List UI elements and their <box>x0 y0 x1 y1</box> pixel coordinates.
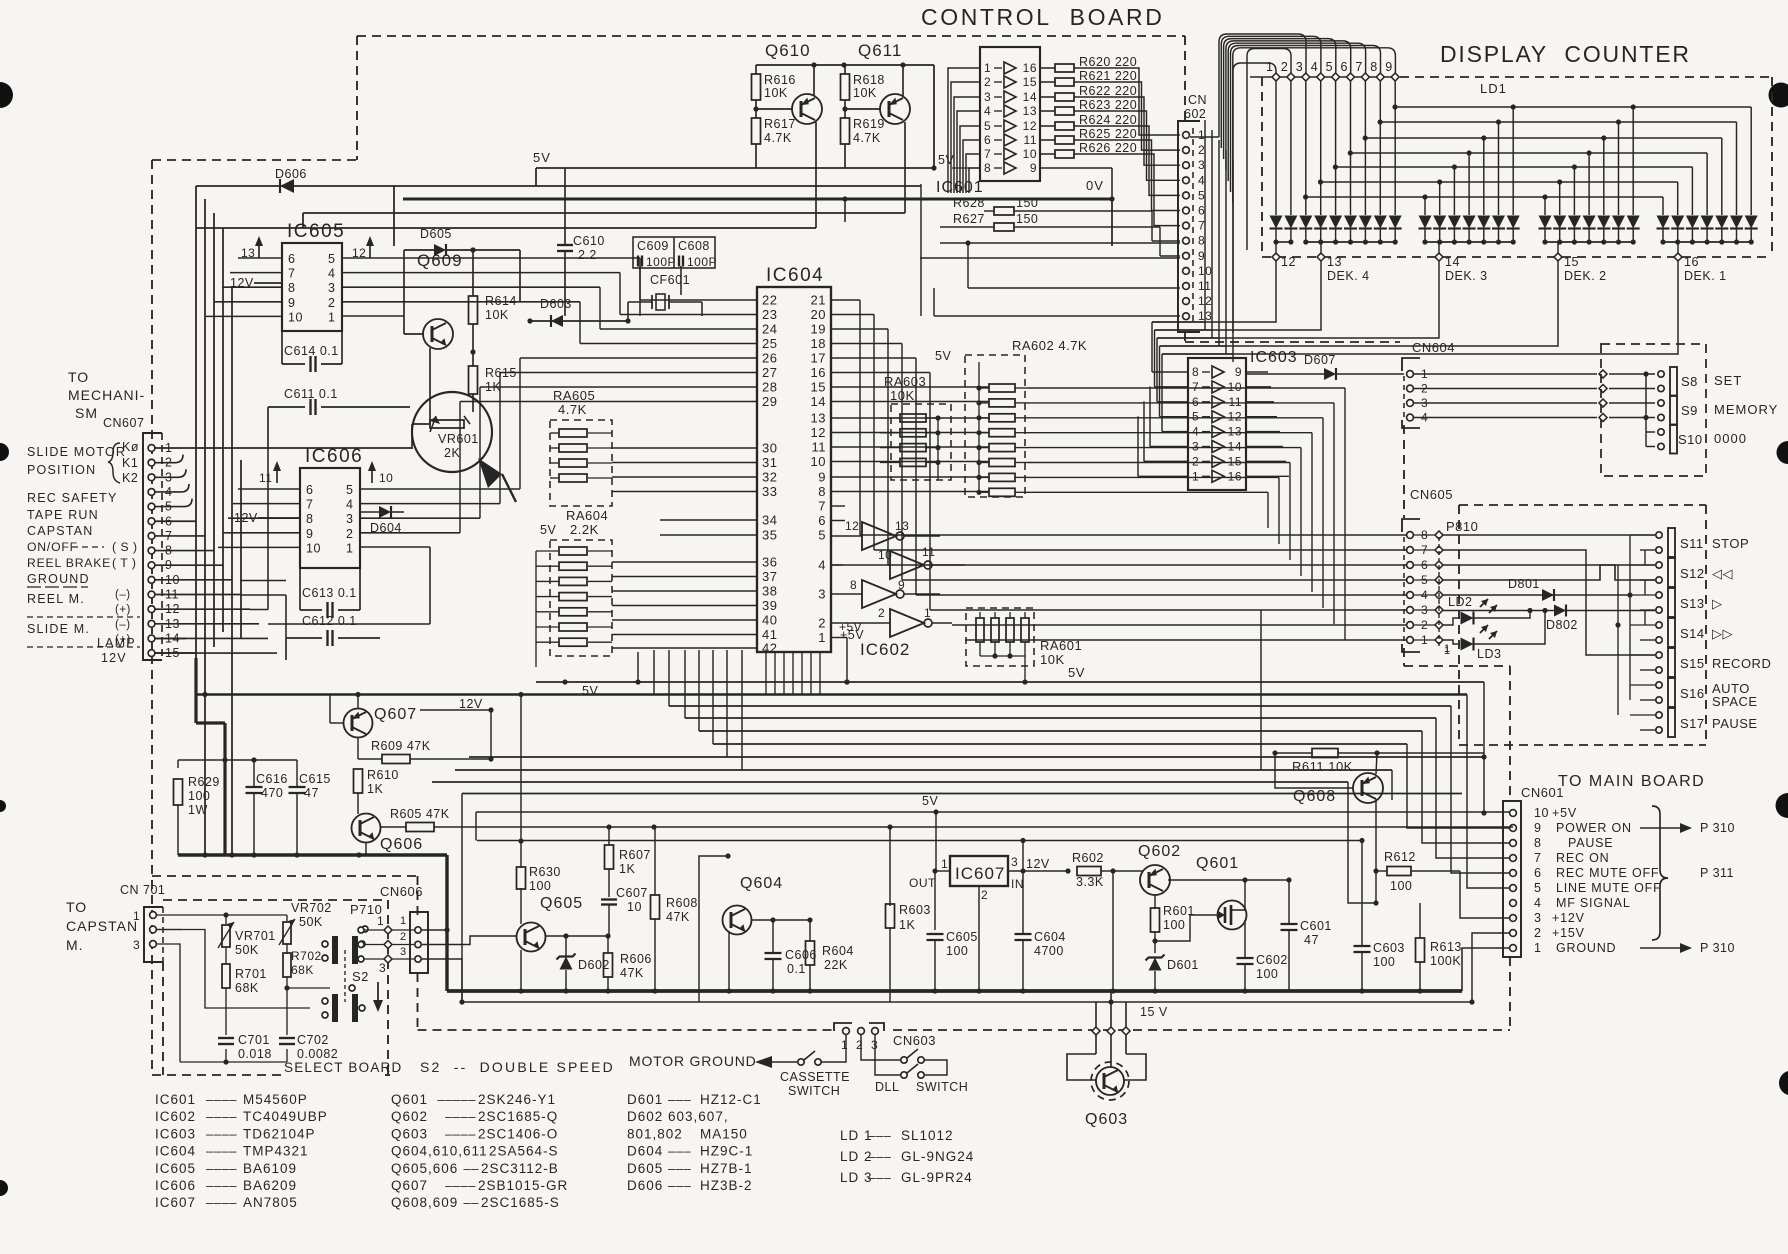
punch hole marks right edge <box>1769 83 1788 1096</box>
capacitor C602 <box>1237 920 1288 994</box>
node diamonds on border <box>1092 1027 1130 1035</box>
svg-text:10: 10 <box>379 471 393 485</box>
resistors R620-R626 with wires <box>1040 55 1180 226</box>
svg-text:1K: 1K <box>367 782 383 796</box>
svg-text:3: 3 <box>984 90 991 104</box>
svg-text:R610: R610 <box>367 768 399 782</box>
wire top-left row <box>196 186 921 246</box>
svg-text:C702: C702 <box>297 1033 329 1047</box>
svg-text:MF SIGNAL: MF SIGNAL <box>1556 896 1631 910</box>
inverter IC602c <box>831 578 940 608</box>
svg-text:8: 8 <box>1192 365 1199 379</box>
svg-text:DISPLAY COUNTER: DISPLAY COUNTER <box>1440 41 1691 67</box>
svg-text:2SC1406-O: 2SC1406-O <box>478 1126 558 1141</box>
svg-text:CASSETTE: CASSETTE <box>780 1070 850 1084</box>
svg-text:23: 23 <box>762 307 777 322</box>
resistor R610 <box>354 768 399 814</box>
svg-text:15: 15 <box>1228 454 1242 468</box>
svg-text:R608: R608 <box>666 896 698 910</box>
svg-text:TO: TO <box>66 899 87 915</box>
svg-text:R609 47K: R609 47K <box>371 739 431 753</box>
svg-text:100: 100 <box>1390 879 1412 893</box>
svg-text:12: 12 <box>811 425 826 440</box>
svg-text:21: 21 <box>811 293 826 308</box>
control board dashed border top <box>357 35 1185 37</box>
svg-text:SLIDE MOTOR: SLIDE MOTOR <box>27 445 126 459</box>
svg-text:Q602: Q602 <box>391 1109 428 1124</box>
svg-text:2: 2 <box>1534 926 1541 940</box>
svg-text:R617: R617 <box>764 117 796 131</box>
wires CN606 right <box>422 927 517 1002</box>
parts list column Qs <box>391 1092 568 1210</box>
svg-text:R611 10K: R611 10K <box>1292 759 1353 774</box>
svg-text:GL-9NG24: GL-9NG24 <box>901 1149 974 1164</box>
svg-text:REC MUTE OFF: REC MUTE OFF <box>1556 866 1659 880</box>
label 12V IC606 <box>234 511 300 525</box>
svg-text:9: 9 <box>306 527 313 541</box>
wire 5V top <box>533 150 937 186</box>
node 16 DEK.1 <box>1674 253 1727 283</box>
svg-text:7: 7 <box>288 267 295 281</box>
svg-text:Q607: Q607 <box>391 1178 428 1193</box>
resistor array RA602 <box>935 338 1087 497</box>
svg-text:IC604: IC604 <box>155 1144 196 1159</box>
svg-text:25: 25 <box>762 336 777 351</box>
wires IC605 left pins <box>206 258 282 316</box>
svg-text:SWITCH: SWITCH <box>916 1080 968 1094</box>
resistor array RA601 <box>966 608 1082 685</box>
display bus verticals 1-9 <box>1250 60 1399 215</box>
wire thick bus <box>178 852 1462 991</box>
resistor R607 <box>605 827 651 897</box>
label SLIDE MOTOR POSITION <box>27 445 126 477</box>
svg-text:Q607: Q607 <box>374 706 417 723</box>
svg-text:2SA564-S: 2SA564-S <box>489 1144 559 1159</box>
svg-text:MECHANI-: MECHANI- <box>68 387 145 403</box>
svg-text:15: 15 <box>1564 255 1579 269</box>
svg-text:38: 38 <box>762 584 777 599</box>
switch S2 link <box>345 950 369 1002</box>
svg-text:4.7K: 4.7K <box>764 131 792 145</box>
svg-text:D604: D604 <box>627 1144 663 1159</box>
svg-text:68K: 68K <box>235 981 259 995</box>
wire 15V verticals <box>1096 991 1126 1027</box>
svg-text:REC ON: REC ON <box>1556 851 1609 865</box>
svg-text:––––: –––– <box>206 1195 237 1210</box>
IC IC603 <box>1188 349 1298 490</box>
control board dashed border bottom-left <box>152 1074 390 1076</box>
svg-text:6: 6 <box>1198 204 1205 218</box>
wires RA602 rows to right <box>1028 388 1345 640</box>
svg-text:14: 14 <box>1445 255 1460 269</box>
node 12 <box>1272 253 1296 269</box>
svg-text:3: 3 <box>1534 911 1541 925</box>
wires IC604 pins 30-33 from RA605 <box>612 448 757 492</box>
LED rail DEK2 <box>1542 239 1635 253</box>
connector CN601 pins <box>1510 806 1662 955</box>
svg-text:––: –– <box>464 1195 480 1210</box>
svg-text:––––: –––– <box>206 1161 237 1176</box>
svg-text:6: 6 <box>1192 395 1199 409</box>
display counter dashed border <box>1262 77 1772 257</box>
capacitor C613 <box>300 568 360 618</box>
label K0 K1 K2 brace <box>108 440 139 485</box>
svg-text:SET: SET <box>1714 373 1742 388</box>
svg-text:DLL: DLL <box>875 1080 899 1094</box>
svg-text:11: 11 <box>922 545 935 559</box>
svg-text:2K: 2K <box>444 446 460 460</box>
wire Q602 collector row <box>1280 879 1362 881</box>
control board dashed border right lower <box>1509 666 1511 1030</box>
svg-text:10: 10 <box>1023 147 1037 161</box>
control board dashed below CN605 <box>1403 648 1405 666</box>
svg-text:AN7805: AN7805 <box>243 1195 298 1210</box>
transistor Q607 <box>330 692 417 738</box>
vertical bus left e <box>229 287 234 858</box>
transistor Q605 <box>517 888 611 994</box>
svg-text:C701: C701 <box>238 1033 270 1047</box>
svg-text:GL-9PR24: GL-9PR24 <box>901 1170 973 1185</box>
LED rail DEK4 <box>1273 239 1397 253</box>
svg-text:100: 100 <box>188 789 210 803</box>
svg-text:D601: D601 <box>1167 958 1199 972</box>
svg-text:14: 14 <box>1023 90 1037 104</box>
label REEL M. <box>27 589 140 617</box>
wires IC601 left pins <box>948 68 980 193</box>
IC604 pin numbers <box>762 293 862 656</box>
svg-text:5V: 5V <box>922 794 938 808</box>
wires CN607 pins2-5 <box>155 455 192 507</box>
svg-text:19: 19 <box>811 322 826 337</box>
inverter IC602a <box>831 519 940 550</box>
label TO MAIN BOARD <box>1558 773 1705 790</box>
label 5V bottom <box>0 0 1 1</box>
svg-text:R618: R618 <box>853 73 885 87</box>
svg-text:47K: 47K <box>620 966 644 980</box>
wire arrow P310 top <box>1640 821 1735 835</box>
LED group DEK3 diodes <box>1419 216 1520 243</box>
svg-text:36: 36 <box>762 555 777 570</box>
svg-text:+12V: +12V <box>1552 911 1585 925</box>
resistor array RA605 <box>550 388 612 506</box>
label Q611 <box>858 41 902 60</box>
parts list column Ds <box>627 1092 762 1193</box>
svg-text:9: 9 <box>288 296 295 310</box>
wire bundle row4 <box>685 718 1509 858</box>
svg-text:RA605: RA605 <box>553 388 595 403</box>
svg-text:18: 18 <box>811 336 826 351</box>
wire select mid <box>157 930 330 1009</box>
svg-text:3.3K: 3.3K <box>1076 875 1104 889</box>
svg-text:2.2K: 2.2K <box>570 522 599 537</box>
svg-text:C613 0.1: C613 0.1 <box>302 586 357 600</box>
svg-text:Q609: Q609 <box>417 251 463 270</box>
svg-text:5V: 5V <box>533 150 551 165</box>
svg-text:35: 35 <box>762 528 777 543</box>
svg-text:C607: C607 <box>616 886 648 900</box>
svg-text:2.2: 2.2 <box>578 248 597 262</box>
svg-text:6: 6 <box>1341 60 1348 74</box>
svg-text:12V: 12V <box>459 697 483 711</box>
svg-text:1: 1 <box>1198 128 1205 142</box>
svg-text:R616: R616 <box>764 73 796 87</box>
svg-text:BA6109: BA6109 <box>243 1161 297 1176</box>
wires IC603 left pins <box>1138 322 1188 476</box>
svg-text:D802: D802 <box>1546 618 1578 632</box>
wires IC604 pins 34-35 <box>660 520 757 535</box>
svg-text:C604: C604 <box>1034 930 1066 944</box>
control board dashed border at CN606 upper <box>417 876 419 915</box>
resistor R615 <box>469 352 517 412</box>
wire Q604 loop <box>699 853 737 1002</box>
wires IC606 left pins <box>218 489 300 547</box>
diode D606 <box>275 167 307 193</box>
svg-text:–––: ––– <box>868 1170 891 1185</box>
inverter IC602b <box>831 545 965 579</box>
wire Q601 gate <box>1155 915 1208 941</box>
svg-text:30: 30 <box>762 441 777 456</box>
svg-text:–––: ––– <box>868 1128 891 1143</box>
control board dashed border step <box>152 159 357 161</box>
svg-text:3: 3 <box>346 512 353 526</box>
svg-text:S12: S12 <box>1680 566 1705 581</box>
switch S2b <box>322 994 365 1022</box>
wires IC606 right pins <box>360 489 520 547</box>
wire CN607 pin1 row <box>155 447 412 449</box>
svg-text:100: 100 <box>1373 955 1395 969</box>
resistor R609 <box>358 738 494 764</box>
IC606 pin numbers <box>306 483 353 555</box>
control board dashed below CN602 <box>1185 332 1400 342</box>
svg-text:S16: S16 <box>1680 686 1705 701</box>
box C609 C608 <box>633 237 715 268</box>
svg-text:Q604: Q604 <box>740 875 783 892</box>
capacitor C608 <box>678 239 717 269</box>
svg-text:BA6209: BA6209 <box>243 1178 297 1193</box>
svg-text:K2: K2 <box>122 471 138 485</box>
svg-text:100: 100 <box>946 944 968 958</box>
svg-text:REC SAFETY: REC SAFETY <box>27 491 118 505</box>
svg-text:TO: TO <box>68 369 89 385</box>
svg-text:CN 701: CN 701 <box>120 883 165 897</box>
wire row 827 <box>434 824 1513 829</box>
wire VR601 left <box>412 424 430 449</box>
wires IC604 right pins 13-10 <box>831 418 989 462</box>
svg-text:28: 28 <box>762 380 777 395</box>
transistor Q604 <box>699 875 813 935</box>
svg-text:4.7K: 4.7K <box>558 402 587 417</box>
svg-text:IC602: IC602 <box>155 1109 196 1124</box>
svg-text:602: 602 <box>1184 107 1206 121</box>
svg-text:100K: 100K <box>1430 954 1461 968</box>
resistor array RA603 <box>880 374 951 480</box>
svg-text:11: 11 <box>812 440 827 455</box>
svg-text:1: 1 <box>377 914 384 928</box>
LED rail DEK3 <box>1422 239 1515 253</box>
wire bundle row2 <box>196 692 1509 888</box>
svg-text:13: 13 <box>1023 104 1037 118</box>
connector CN602 pins <box>1183 128 1213 323</box>
svg-text:Q611: Q611 <box>858 41 902 60</box>
svg-text:LINE MUTE OFF: LINE MUTE OFF <box>1556 881 1662 895</box>
svg-text:S2 -- DOUBLE SPEED: S2 -- DOUBLE SPEED <box>420 1059 615 1075</box>
IC605 pin numbers <box>288 252 335 324</box>
svg-text:SELECT BOARD: SELECT BOARD <box>284 1060 402 1075</box>
svg-text:HZ7B-1: HZ7B-1 <box>700 1161 753 1176</box>
wire Q603 left loop <box>1067 1035 1096 1080</box>
svg-text:(–): (–) <box>115 589 131 601</box>
svg-text:12: 12 <box>1228 410 1242 424</box>
label 0V <box>1086 178 1104 193</box>
svg-text:7: 7 <box>984 147 991 161</box>
capacitor C616 <box>246 760 288 858</box>
zener D601 <box>1146 953 1199 994</box>
svg-text:+5V: +5V <box>839 620 862 634</box>
label 12V q607 <box>420 697 494 759</box>
svg-text:8: 8 <box>984 161 991 175</box>
svg-text:SL1012: SL1012 <box>901 1128 954 1143</box>
svg-text:D605: D605 <box>627 1161 663 1176</box>
svg-text:R624 220: R624 220 <box>1079 113 1137 127</box>
connector P710 <box>358 926 392 975</box>
svg-text:SWITCH: SWITCH <box>788 1084 840 1098</box>
svg-text:13: 13 <box>1228 425 1242 439</box>
svg-text:CN603: CN603 <box>893 1033 936 1048</box>
svg-text:9: 9 <box>1235 365 1242 379</box>
svg-text:34: 34 <box>762 513 777 528</box>
transistor Q606 <box>340 805 423 856</box>
svg-text:1: 1 <box>818 630 826 645</box>
svg-text:C615: C615 <box>299 772 331 786</box>
resistor R617 <box>752 100 796 168</box>
svg-text:40: 40 <box>762 613 777 628</box>
svg-text:2: 2 <box>1198 143 1205 157</box>
capacitor C605 <box>927 930 978 994</box>
svg-text:R625 220: R625 220 <box>1079 127 1137 141</box>
svg-text:11: 11 <box>1229 395 1242 409</box>
variable resistor VR601 <box>412 392 492 472</box>
transistor Q602 <box>1113 843 1181 909</box>
wire Q606 emitter down <box>365 855 367 856</box>
capacitor C612 <box>286 614 380 660</box>
control board dashed border bottom <box>418 1029 1511 1031</box>
node 13 DEK.4 <box>1317 253 1370 283</box>
svg-text:MOTOR GROUND: MOTOR GROUND <box>629 1053 757 1069</box>
control board dashed notch above select board <box>152 875 417 877</box>
control board dashed border left upper <box>356 36 358 160</box>
svg-text:4: 4 <box>1198 173 1205 187</box>
wire IC604 pin1 +5V <box>831 638 850 685</box>
svg-text:S15: S15 <box>1680 656 1705 671</box>
svg-text:17: 17 <box>811 351 826 366</box>
IC IC604 <box>757 265 831 652</box>
switch S8-S10 common wire <box>1603 371 1655 446</box>
svg-text:––––: –––– <box>445 1109 476 1124</box>
svg-text:2: 2 <box>818 616 826 631</box>
svg-text:CAPSTAN: CAPSTAN <box>27 524 94 538</box>
svg-text:8: 8 <box>1370 60 1377 74</box>
svg-text:S13: S13 <box>1680 596 1705 611</box>
svg-text:6: 6 <box>1534 866 1541 880</box>
resistor R613 <box>1416 871 1462 994</box>
LED LD2 <box>1443 595 1530 625</box>
svg-text:3: 3 <box>328 281 335 295</box>
wires P810 to switches <box>1443 535 1655 655</box>
switch block dashed box S8-S10 <box>1601 344 1706 476</box>
svg-text:––––: –––– <box>445 1126 476 1141</box>
resistor R628 <box>953 196 1180 241</box>
svg-text:VR601: VR601 <box>438 432 479 446</box>
wire CN601 pin2 15V <box>1469 933 1509 1005</box>
resistor R605 <box>380 807 480 832</box>
diode D801 <box>1508 577 1554 601</box>
svg-text:2SC1685-S: 2SC1685-S <box>481 1195 560 1210</box>
resistor R611 <box>1275 749 1484 775</box>
svg-text:16: 16 <box>811 365 826 380</box>
wire Q609 top <box>404 247 520 334</box>
svg-text:8: 8 <box>1534 836 1541 850</box>
svg-text:C602: C602 <box>1256 953 1288 967</box>
svg-text:5: 5 <box>1198 188 1205 202</box>
node 15 DEK.2 <box>1554 253 1607 283</box>
svg-text:7: 7 <box>818 499 826 514</box>
svg-text:R620 220: R620 220 <box>1079 55 1137 69</box>
svg-text:4: 4 <box>1311 60 1318 74</box>
wire IC604 pin4 <box>831 565 858 594</box>
svg-text:IC606: IC606 <box>305 446 363 467</box>
svg-text:100P: 100P <box>646 255 676 269</box>
svg-text:SLIDE M.: SLIDE M. <box>27 622 90 636</box>
label MOTOR GROUND <box>629 1053 797 1069</box>
svg-text:OUT: OUT <box>909 876 936 890</box>
label 12V IC605 <box>230 276 282 290</box>
connector P810 <box>1414 519 1478 655</box>
switch S11-S17 stub wires <box>1630 535 1655 730</box>
LED LD3 <box>1443 611 1545 661</box>
vertical drops IC604 bottom2 <box>766 652 820 694</box>
svg-text:DEK. 2: DEK. 2 <box>1564 269 1607 283</box>
svg-text:C609: C609 <box>637 239 669 253</box>
capacitor C606 <box>765 920 817 994</box>
svg-text:39: 39 <box>762 598 777 613</box>
svg-text:+5V: +5V <box>1552 806 1577 820</box>
wire IC607 in <box>1008 868 1071 873</box>
svg-text:S11: S11 <box>1680 536 1704 551</box>
svg-text:CAPSTAN: CAPSTAN <box>66 918 138 934</box>
diode D802 <box>1546 605 1578 633</box>
svg-text:S2: S2 <box>352 969 369 984</box>
svg-text:14: 14 <box>811 394 826 409</box>
wire bundle row1 5V <box>536 652 1487 816</box>
svg-text:0.0082: 0.0082 <box>297 1047 338 1061</box>
control board dashed border left <box>151 160 153 1075</box>
svg-text:4: 4 <box>346 498 353 512</box>
label 5V RA601 <box>1068 665 1085 680</box>
LED group DEK1 diodes <box>1657 216 1758 243</box>
svg-text:S9: S9 <box>1681 403 1698 418</box>
svg-text:1K: 1K <box>619 862 635 876</box>
svg-text:R628: R628 <box>953 196 985 210</box>
label CN701 <box>120 883 165 897</box>
resistor R701 <box>222 964 267 1035</box>
svg-text:3: 3 <box>1192 440 1199 454</box>
svg-text:R619: R619 <box>853 117 885 131</box>
svg-text:8: 8 <box>818 484 826 499</box>
svg-text:C608: C608 <box>678 239 710 253</box>
switch S9 <box>1658 396 1778 425</box>
svg-text:CF601: CF601 <box>650 273 690 287</box>
svg-text:D607: D607 <box>1304 353 1336 367</box>
